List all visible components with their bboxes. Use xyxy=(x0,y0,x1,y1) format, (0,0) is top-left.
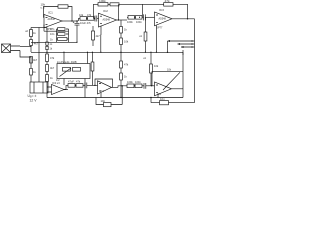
wire U1 feedback xyxy=(44,7,73,22)
input connector J1 xyxy=(2,44,21,53)
svg-text:u2: u2 xyxy=(25,29,28,33)
wire U1 output xyxy=(62,20,78,22)
capacitor C4 xyxy=(57,28,69,30)
svg-text:47k: 47k xyxy=(76,80,81,84)
resistor R31 xyxy=(91,62,94,71)
svg-text:1k: 1k xyxy=(33,31,36,35)
wire U2 feedback xyxy=(94,4,143,20)
node dot xyxy=(122,85,123,86)
resistor R19 xyxy=(164,3,173,7)
op-amp U3 xyxy=(155,12,173,26)
svg-text:4k7: 4k7 xyxy=(33,58,38,62)
capacitor C5a xyxy=(57,33,69,35)
svg-text:1/2: 1/2 xyxy=(56,79,60,82)
svg-text:1k: 1k xyxy=(124,28,127,32)
node rail tops xyxy=(31,27,47,29)
node dot xyxy=(118,19,119,20)
resistor R4 xyxy=(30,40,33,46)
svg-text:AD548: AD548 xyxy=(48,18,56,21)
resistor R27 xyxy=(76,84,83,88)
wire rail x47 xyxy=(46,28,48,98)
svg-text:u1: u1 xyxy=(139,34,142,38)
svg-text:10uF 47k: 10uF 47k xyxy=(80,21,92,25)
svg-text:1n: 1n xyxy=(50,43,53,46)
potentiometer box P1 xyxy=(57,64,90,79)
wire connector drop xyxy=(167,41,169,52)
wire cluster verticals xyxy=(57,29,69,42)
capacitor C8 box xyxy=(160,101,169,105)
resistor R8 xyxy=(46,65,49,72)
wire input top xyxy=(20,46,31,48)
wire A1 noninverting feed xyxy=(43,25,45,28)
wire U6 output xyxy=(172,88,184,90)
rail x121 upper xyxy=(120,20,122,52)
op-amp U4 xyxy=(52,85,65,95)
capacitor C5 xyxy=(83,83,90,89)
wire P2 link xyxy=(182,52,184,97)
svg-text:IC4: IC4 xyxy=(100,89,105,93)
op-amp U5 xyxy=(98,81,112,94)
RC block Z2 xyxy=(151,102,195,104)
battery box BT1 xyxy=(30,82,48,93)
node dots bottom xyxy=(120,97,121,98)
resistor R23 xyxy=(150,64,153,73)
capacitor C10 xyxy=(46,46,48,49)
svg-text:47n: 47n xyxy=(50,27,55,31)
op-amp U1 xyxy=(44,15,62,28)
svg-text:10n: 10n xyxy=(160,97,165,101)
capacitor C7 box xyxy=(104,103,112,107)
capacitor C11 xyxy=(110,3,119,6)
resistor R10 xyxy=(58,5,68,8)
svg-text:100k: 100k xyxy=(99,0,106,3)
rail x121 lower xyxy=(120,52,122,97)
svg-text:47k: 47k xyxy=(87,13,92,17)
wire U3 output xyxy=(172,18,195,20)
wire P1 drops xyxy=(64,52,88,97)
wire chain2b xyxy=(147,16,155,18)
resistor R1 xyxy=(30,30,33,37)
svg-text:u.a: u.a xyxy=(41,6,45,10)
node dots on bus xyxy=(92,52,93,53)
wire right edge xyxy=(194,19,196,103)
capacitor C6 xyxy=(142,83,148,89)
wire bus tick xyxy=(182,50,184,55)
svg-text:IC1: IC1 xyxy=(48,11,53,15)
wire U1 plus path xyxy=(44,28,69,31)
resistor R28 xyxy=(127,84,134,88)
svg-text:47uF: 47uF xyxy=(68,80,74,84)
resistor R30 xyxy=(57,38,69,40)
wire left rail x31 xyxy=(30,28,32,83)
svg-text:10k: 10k xyxy=(154,64,159,68)
svg-text:OP77: OP77 xyxy=(156,27,163,30)
resistor R20 xyxy=(92,31,95,40)
svg-text:47k: 47k xyxy=(124,63,129,67)
svg-text:10k: 10k xyxy=(79,13,84,17)
svg-text:4k7: 4k7 xyxy=(34,42,39,46)
svg-text:log.Pegelst. 40dB: log.Pegelst. 40dB xyxy=(57,61,77,64)
resistor R16 xyxy=(128,16,135,20)
wire R31 links xyxy=(92,52,94,85)
wire U2 output xyxy=(117,19,128,21)
svg-text:1k: 1k xyxy=(50,48,53,51)
wire U2 lower input drop xyxy=(100,26,102,35)
resistor R14 xyxy=(120,27,123,34)
svg-text:1k: 1k xyxy=(33,70,36,74)
resistor R15 xyxy=(120,38,123,45)
svg-text:AD548: AD548 xyxy=(103,19,111,22)
op-amp U2 xyxy=(99,13,117,27)
resistor R9 xyxy=(46,75,49,82)
svg-text:1k: 1k xyxy=(50,76,53,80)
capacitor C3 xyxy=(142,14,147,20)
output connector pins xyxy=(168,40,195,48)
node dot xyxy=(71,20,72,21)
wire y42 xyxy=(76,42,77,43)
svg-text:1k: 1k xyxy=(50,37,53,41)
svg-text:12 V: 12 V xyxy=(30,99,38,103)
resistor R3 xyxy=(30,69,33,76)
svg-text:4k7: 4k7 xyxy=(96,34,101,38)
svg-text:IC5: IC5 xyxy=(157,92,162,96)
wire chain3 link xyxy=(64,85,98,89)
svg-text:10k: 10k xyxy=(124,40,129,44)
capacitor C9 xyxy=(46,42,48,45)
svg-text:u1: u1 xyxy=(143,56,146,60)
wire U5 feedback xyxy=(95,79,113,87)
wire x101 drop xyxy=(100,35,102,53)
resistor R12 xyxy=(88,17,95,21)
svg-text:AD548: AD548 xyxy=(159,18,167,21)
potentiometer P2 feedback xyxy=(152,72,183,90)
svg-text:IC3: IC3 xyxy=(159,8,164,12)
wire mid rail x39 xyxy=(38,28,40,83)
resistor R11 xyxy=(80,17,87,21)
wire input lower jog xyxy=(20,51,31,58)
wire U6 plus drop xyxy=(157,94,159,97)
wire U5 output xyxy=(112,86,128,88)
wire R18 drop xyxy=(145,17,147,52)
resistor R24 xyxy=(63,68,71,72)
svg-text:47k: 47k xyxy=(50,56,55,60)
wire U4 input xyxy=(47,87,52,92)
resistor R7 xyxy=(46,54,49,62)
svg-text:47k: 47k xyxy=(165,0,170,3)
svg-text:100k: 100k xyxy=(127,20,133,24)
resistor R21 xyxy=(120,61,123,68)
bus bottom y97.5 xyxy=(47,97,183,99)
wire chain2 xyxy=(127,16,128,18)
resistor R18 xyxy=(144,32,147,41)
svg-text:1k: 1k xyxy=(124,75,127,79)
RC block Z1 xyxy=(96,98,122,105)
svg-text:IC2: IC2 xyxy=(103,9,108,13)
svg-text:10k: 10k xyxy=(167,69,172,72)
svg-text:100n: 100n xyxy=(135,80,141,84)
wire U3 plus drop xyxy=(156,25,158,52)
svg-text:100n: 100n xyxy=(136,20,142,24)
resistor R29 xyxy=(135,84,142,88)
resistor R13 xyxy=(98,3,108,6)
wire x122 drop xyxy=(121,86,123,98)
wire U3 feedback xyxy=(142,4,187,18)
resistor R17 xyxy=(136,16,143,20)
wire U4 out xyxy=(64,89,68,91)
wire U5 plus drop xyxy=(100,93,102,98)
resistor R25 xyxy=(73,68,81,72)
node dot xyxy=(187,18,188,19)
resistor R22 xyxy=(120,73,123,80)
capacitor C1 xyxy=(75,21,80,42)
bus mid y52 xyxy=(31,51,183,53)
wire U1 inputs xyxy=(43,17,46,19)
labels xyxy=(25,0,172,103)
svg-text:10n: 10n xyxy=(50,32,55,36)
resistor R2 xyxy=(30,57,33,64)
svg-text:100k: 100k xyxy=(127,80,133,84)
op-amp U6 xyxy=(155,82,172,96)
rail x151 xyxy=(150,52,152,102)
svg-text:4k7: 4k7 xyxy=(50,66,55,70)
capacitor C2 xyxy=(94,16,99,22)
wire chain1 xyxy=(79,18,81,21)
svg-text:10n: 10n xyxy=(101,99,106,103)
resistor R26 xyxy=(68,84,75,88)
